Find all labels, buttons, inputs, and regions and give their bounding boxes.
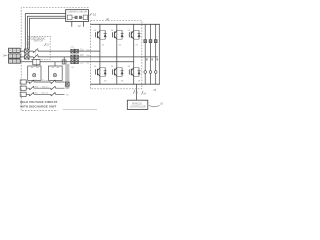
svg-text:SWITCH: SWITCH [34,41,43,43]
svg-text:HIGH VOLTAGE CIRCUIT: HIGH VOLTAGE CIRCUIT [20,100,57,104]
svg-text:12: 12 [78,24,82,28]
svg-text:30b → 32b on: 30b → 32b on [35,86,50,88]
svg-text:WITH DISCHARGE UNIT: WITH DISCHARGE UNIT [20,104,56,108]
svg-text:CONTROLLER: CONTROLLER [130,107,146,109]
svg-text:30a → 32a on: 30a → 32a on [35,80,50,82]
svg-text:CONTROL CIRCUIT: CONTROL CIRCUIT [67,12,88,14]
svg-text:VEHICLE: VEHICLE [132,103,142,105]
svg-text:30c: 30c [86,62,89,64]
svg-text:10: 10 [93,13,97,17]
svg-text:30c → 32c on: 30c → 32c on [35,93,49,95]
